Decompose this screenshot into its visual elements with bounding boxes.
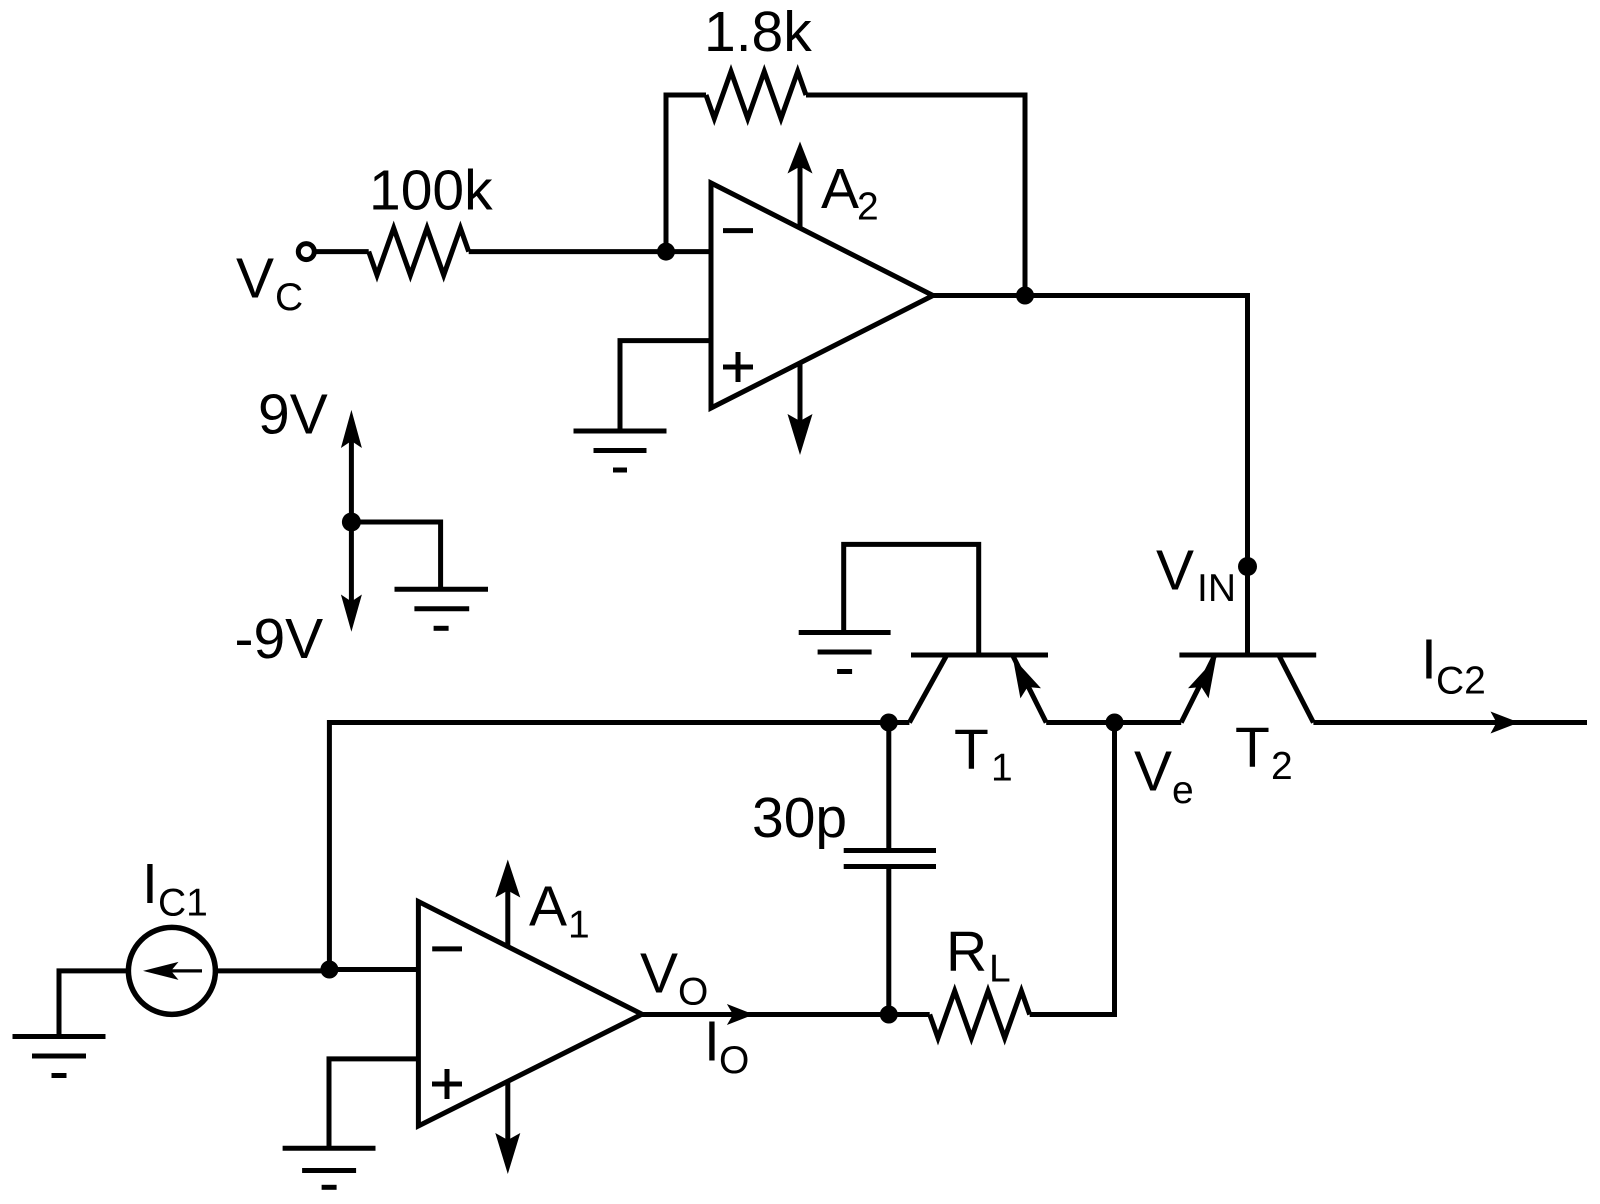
svg-text:e: e [1172, 769, 1194, 812]
svg-text:I: I [1421, 627, 1437, 691]
svg-text:9V: 9V [258, 383, 328, 447]
svg-text:V: V [236, 247, 274, 311]
svg-text:2: 2 [857, 186, 879, 229]
svg-text:1: 1 [568, 904, 590, 947]
svg-text:T: T [1235, 716, 1270, 780]
svg-text:1: 1 [991, 746, 1013, 789]
svg-text:V: V [1156, 539, 1194, 603]
svg-text:I: I [142, 852, 158, 916]
svg-text:-9V: -9V [235, 607, 324, 671]
svg-text:C1: C1 [158, 882, 208, 925]
svg-text:L: L [989, 948, 1011, 991]
svg-text:1.8k: 1.8k [704, 0, 812, 64]
svg-text:O: O [678, 970, 708, 1013]
svg-text:C: C [275, 276, 303, 319]
svg-text:V: V [640, 942, 678, 1006]
svg-text:O: O [719, 1039, 749, 1082]
svg-text:A: A [821, 157, 859, 221]
svg-text:R: R [946, 920, 987, 984]
svg-text:T: T [954, 718, 989, 782]
svg-text:I: I [704, 1010, 720, 1074]
svg-text:IN: IN [1197, 567, 1236, 610]
svg-text:100k: 100k [369, 159, 493, 223]
svg-text:A: A [529, 875, 567, 939]
svg-text:30p: 30p [752, 786, 847, 850]
svg-text:2: 2 [1271, 745, 1293, 788]
svg-text:V: V [1134, 740, 1172, 804]
svg-text:C2: C2 [1436, 660, 1486, 703]
